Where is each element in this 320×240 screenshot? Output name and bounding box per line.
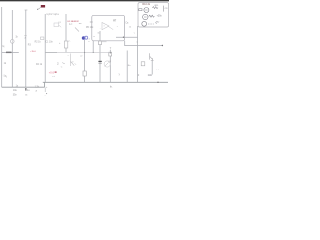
top border bar: [0, 0, 169, 1]
inset detail box: [138, 3, 169, 27]
transistor Q2: [71, 62, 74, 66]
svg-text:tq 1/2: tq 1/2: [47, 13, 53, 16]
svg-text:R2 1k: R2 1k: [35, 41, 42, 43]
annotation rounded box: [92, 15, 125, 41]
svg-text:U1 NE5532: U1 NE5532: [67, 21, 79, 23]
inset source circle 3: [142, 21, 147, 26]
cap C6 below-rail dark mark: [25, 88, 26, 91]
resistor R8 box: [83, 71, 86, 76]
transistor diagonal under U1: [75, 28, 79, 32]
junction dot y37: [123, 37, 124, 38]
svg-text:.. ..: .. ..: [156, 68, 159, 70]
inset resistor left: [139, 9, 142, 11]
svg-text:ΩΩ: ΩΩ: [148, 73, 152, 77]
output device symbol: [149, 53, 151, 59]
horizontal rail y37: [116, 36, 138, 38]
svg-text:+15.0: +15.0: [30, 51, 36, 53]
red net flag: [41, 5, 45, 8]
tick right of 2: [62, 63, 65, 64]
mid rail darker segment: [45, 51, 57, 53]
arrow dot node out: [162, 45, 163, 46]
svg-text:a :: a :: [25, 94, 28, 96]
tick top of V2: [25, 9, 28, 11]
wire V8: [99, 31, 101, 82]
svg-text:R4 1k: R4 1k: [36, 64, 43, 66]
tick top of V12: [151, 59, 154, 61]
wire V10: [126, 51, 128, 83]
inset source circle 2: [143, 14, 148, 19]
wire V4 lower: [65, 48, 67, 52]
junction dot on rail: [157, 82, 158, 83]
op-amp output wire: [109, 27, 114, 30]
junction dot V6 rail: [84, 52, 85, 53]
horizontal mid-left rail: [2, 51, 19, 53]
short stub below rail x45: [44, 88, 46, 92]
svg-text:tq2 a: tq2 a: [54, 13, 60, 16]
inset marks right: [163, 6, 165, 12]
svg-text:+.: +.: [46, 87, 48, 89]
inset dashes: [148, 23, 154, 25]
wire V3: [44, 14, 46, 82]
rail step vertical: [44, 82, 46, 87]
svg-text:C1 10n: C1 10n: [45, 41, 53, 43]
resistor R6 box: [64, 41, 68, 48]
wire left edge vertical: [1, 7, 3, 87]
bottom left ground rail: [2, 86, 45, 88]
wire V1 lower: [11, 43, 13, 87]
wire V9: [109, 50, 111, 82]
blue marker icon: [82, 36, 86, 40]
wire V6: [84, 40, 86, 82]
transistor Q3: [104, 61, 110, 67]
capacitor C4 plates: [98, 61, 101, 62]
junction dot V7 rail: [93, 52, 94, 53]
wire V4 upper: [65, 14, 67, 41]
svg-text:+0.6: +0.6: [49, 71, 55, 75]
wire corner to inset: [125, 41, 163, 46]
inset zigzag 2: [149, 15, 155, 17]
bottom main ground rail: [43, 81, 168, 83]
op-amp U2: [102, 23, 109, 30]
wire V1 upper: [11, 10, 13, 39]
svg-text:tb.: tb.: [110, 85, 113, 88]
svg-text:z .: z .: [68, 41, 71, 43]
junction dot mid rail: [110, 52, 111, 53]
wire V2: [25, 10, 27, 87]
resistor R1 dark segment: [6, 52, 12, 54]
current source I1: [11, 40, 15, 44]
resistor R9 box: [99, 41, 102, 45]
wire V11: [137, 26, 139, 82]
svg-text:+35v: +35v: [157, 16, 163, 18]
inset source circle 1: [144, 8, 149, 13]
horizontal mid rail: [45, 51, 110, 53]
resistor R11 box: [109, 52, 112, 56]
transistor Q1: [54, 23, 59, 27]
tick crossing box edge: [90, 21, 93, 23]
inset zigzag 1: [152, 7, 158, 9]
svg-text:R10 2k: R10 2k: [142, 3, 150, 6]
red dash: [55, 72, 57, 73]
wire V7: [92, 41, 94, 53]
wire V5: [69, 54, 71, 67]
op-amp underside wire: [102, 41, 107, 43]
wire V12: [151, 60, 153, 75]
svg-text:R5 10k: R5 10k: [86, 27, 94, 29]
svg-text:out: out: [52, 75, 55, 78]
resistor box mid-left: [41, 37, 44, 40]
C5 box: [141, 62, 145, 66]
